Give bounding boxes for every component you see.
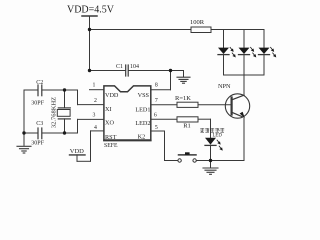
svg-text:30PF: 30PF: [31, 101, 44, 107]
svg-text:XI: XI: [105, 106, 112, 113]
svg-text:32.768KHZ: 32.768KHZ: [50, 97, 57, 128]
svg-text:LED2: LED2: [135, 120, 150, 127]
svg-text:XO: XO: [105, 119, 114, 126]
svg-text:LED1: LED1: [135, 107, 150, 114]
svg-text:8: 8: [155, 83, 158, 89]
svg-text:SEFE: SEFE: [104, 143, 118, 149]
svg-text:C3: C3: [36, 121, 43, 127]
svg-text:30PF: 30PF: [31, 141, 44, 147]
svg-text:C2: C2: [36, 80, 43, 86]
svg-text:6: 6: [154, 113, 157, 119]
svg-text:104: 104: [130, 64, 139, 70]
svg-text:4: 4: [94, 125, 97, 131]
svg-text:3: 3: [93, 113, 96, 119]
svg-text:R=1K: R=1K: [175, 95, 191, 102]
svg-text:2: 2: [94, 98, 97, 104]
svg-text:5: 5: [155, 125, 158, 131]
svg-text:VDD: VDD: [105, 92, 119, 99]
svg-text:100R: 100R: [190, 19, 205, 26]
svg-text:1: 1: [93, 83, 96, 89]
svg-text:VSS: VSS: [138, 92, 150, 99]
svg-text:7: 7: [155, 98, 158, 104]
svg-text:VDD: VDD: [70, 148, 84, 155]
svg-text:C1: C1: [116, 64, 123, 70]
svg-text:NPN: NPN: [218, 83, 231, 90]
svg-text:K2: K2: [138, 134, 146, 141]
svg-text:LED: LED: [213, 134, 223, 139]
svg-text:R1: R1: [183, 123, 191, 130]
svg-text:VDD=4.5V: VDD=4.5V: [67, 5, 115, 16]
svg-text:RST: RST: [105, 134, 117, 141]
